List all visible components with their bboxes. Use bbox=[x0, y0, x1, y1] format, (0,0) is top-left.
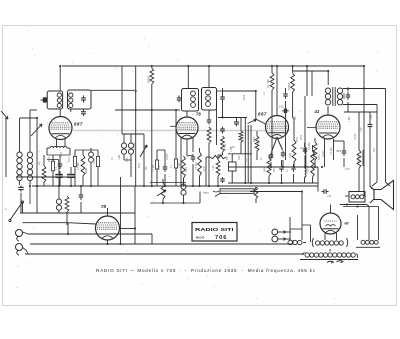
svg-text:2 MΩ: 2 MΩ bbox=[223, 144, 227, 150]
svg-text:4 MΩ: 4 MΩ bbox=[258, 140, 261, 146]
svg-text:fono: fono bbox=[203, 191, 209, 195]
svg-text:2500: 2500 bbox=[274, 166, 276, 172]
svg-text:1 MF: 1 MF bbox=[179, 162, 181, 168]
svg-text:RADIO SITI: RADIO SITI bbox=[195, 227, 234, 233]
svg-text:500: 500 bbox=[263, 167, 267, 172]
svg-text:60: 60 bbox=[345, 222, 349, 226]
svg-text:2500: 2500 bbox=[49, 156, 51, 162]
svg-text:2500: 2500 bbox=[159, 164, 161, 170]
svg-text:0.5 MΩ: 0.5 MΩ bbox=[196, 162, 198, 170]
svg-text:78: 78 bbox=[196, 112, 201, 117]
svg-text:1 MF: 1 MF bbox=[119, 154, 121, 160]
svg-text:+ 25 MF: + 25 MF bbox=[307, 165, 310, 174]
svg-text:0.1: 0.1 bbox=[37, 161, 41, 165]
svg-text:2500: 2500 bbox=[254, 136, 256, 142]
svg-text:0.25: 0.25 bbox=[288, 152, 292, 158]
svg-text:0.5 MΩ: 0.5 MΩ bbox=[153, 164, 155, 172]
svg-text:78: 78 bbox=[101, 204, 106, 209]
svg-text:5000: 5000 bbox=[297, 136, 299, 142]
svg-text:5000: 5000 bbox=[186, 166, 188, 172]
svg-text:5000: 5000 bbox=[319, 154, 321, 160]
svg-text:10000: 10000 bbox=[355, 133, 357, 140]
svg-text:MOD: MOD bbox=[196, 236, 205, 240]
svg-text:1 MF: 1 MF bbox=[371, 114, 373, 120]
svg-text:0.1: 0.1 bbox=[300, 146, 304, 150]
svg-text:41: 41 bbox=[314, 109, 320, 114]
svg-text:RADIO SITI — Modello n 706 ·: RADIO SITI — Modello n 706 · - Produzion… bbox=[96, 268, 316, 273]
svg-text:0.25: 0.25 bbox=[345, 169, 350, 171]
svg-text:0.5 MΩ: 0.5 MΩ bbox=[134, 142, 136, 150]
svg-text:465: 465 bbox=[336, 149, 341, 153]
svg-text:10000: 10000 bbox=[167, 153, 169, 160]
svg-text:10000: 10000 bbox=[204, 165, 206, 172]
svg-text:10000: 10000 bbox=[323, 150, 325, 157]
svg-text:0.25: 0.25 bbox=[127, 157, 129, 162]
svg-text:0.5 MΩ: 0.5 MΩ bbox=[331, 147, 333, 155]
svg-text:10000: 10000 bbox=[287, 82, 291, 90]
svg-text:5000: 5000 bbox=[139, 162, 141, 168]
svg-text:2500: 2500 bbox=[61, 151, 63, 157]
svg-text:687: 687 bbox=[74, 122, 83, 127]
svg-text:50000: 50000 bbox=[147, 75, 151, 83]
svg-text:0.25: 0.25 bbox=[213, 165, 215, 170]
svg-text:687: 687 bbox=[258, 112, 267, 117]
svg-text:1 MF: 1 MF bbox=[349, 116, 351, 122]
svg-text:5000: 5000 bbox=[69, 156, 71, 162]
svg-text:0.5 MΩ: 0.5 MΩ bbox=[309, 142, 311, 150]
svg-text:0.1 MΩ: 0.1 MΩ bbox=[266, 80, 270, 88]
svg-text:0.25: 0.25 bbox=[239, 155, 241, 160]
svg-text:706: 706 bbox=[215, 235, 227, 241]
svg-text:0.5 MΩ: 0.5 MΩ bbox=[78, 162, 80, 170]
svg-text:0.25: 0.25 bbox=[361, 127, 363, 132]
svg-text:0.25: 0.25 bbox=[279, 106, 284, 109]
svg-text:5000: 5000 bbox=[244, 94, 246, 100]
svg-text:50000: 50000 bbox=[357, 155, 361, 163]
svg-text:10000: 10000 bbox=[94, 157, 96, 164]
svg-text:5000: 5000 bbox=[84, 168, 88, 174]
svg-text:+10: +10 bbox=[327, 195, 332, 198]
svg-text:1 MF: 1 MF bbox=[231, 146, 233, 152]
svg-text:2500: 2500 bbox=[301, 134, 303, 140]
